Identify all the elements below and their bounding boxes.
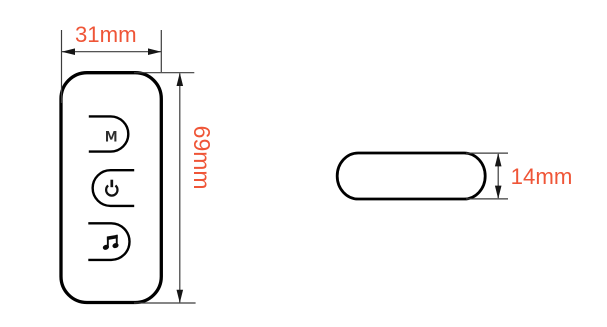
dimension 69mm : top arrowhead [177,73,184,86]
dimension 31mm : left extension line [61,30,63,103]
dimension 14mm : dimension line [497,154,499,198]
dimension 31mm : left arrowhead [62,48,76,55]
svg-text:31mm: 31mm [75,22,137,47]
dimension 69mm : dimension line [179,73,181,302]
dimension 14mm : top extension line [466,152,508,154]
label M [106,131,116,142]
svg-text:69mm: 69mm [189,126,215,190]
music note icon [102,235,119,251]
dimension 14mm : down arrowhead [495,186,502,199]
button power outline [93,170,135,206]
dimension 69mm : bottom extension line [134,302,196,304]
dimension 69mm : bottom arrowhead [177,290,184,303]
button music outline [88,223,129,260]
dimension 31mm : right extension line [160,30,162,72]
dimension 14mm : up arrowhead [495,153,502,166]
dimension 31mm : right arrowhead [148,48,161,55]
remote body (side view pill) [337,153,485,199]
dimension 31mm : dimension line [62,51,161,53]
dimension 14mm : bottom extension line [466,198,508,200]
remote body (front view) [61,73,161,303]
power icon [106,186,117,196]
dimension 69mm : top extension line [134,72,194,74]
button M outline [89,116,129,151]
svg-text:14mm: 14mm [511,164,573,189]
